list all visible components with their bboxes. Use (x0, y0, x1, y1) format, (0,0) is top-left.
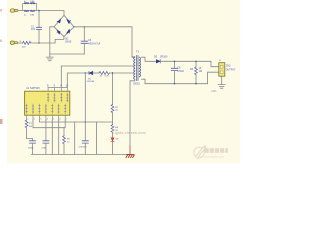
connector CN1 (AC line input) (11, 9, 18, 12)
left margin red mark A (0, 9, 2, 12)
pin names inside IC (top-right squiggles) (47, 93, 68, 102)
svg-text:SR160: SR160 (160, 55, 168, 58)
wire snubber branch from wire B (84, 73, 86, 122)
wire DC+ bus to transformer (74, 27, 132, 57)
bottom ground rail (32, 153, 131, 155)
wire plain branch x=96.6 (96, 122, 98, 154)
capacitor C4 (45, 120, 47, 140)
IC U1 (25, 91, 70, 115)
diode B1-c (57, 30, 60, 34)
wire CN1 to choke (18, 10, 23, 12)
svg-text:1N4148: 1N4148 (87, 81, 95, 83)
node C5 top junction (84, 26, 85, 27)
svg-text:400V/4.7uF: 400V/4.7uF (88, 43, 101, 46)
left margin red mark B (0, 40, 2, 43)
ground (power, red) (126, 155, 134, 158)
svg-text:www.dianlut.com: www.dianlut.com (204, 154, 225, 158)
transformer T1 (132, 56, 141, 81)
diode D6 (89, 71, 93, 74)
wire plain branch x=74.7 (74, 122, 76, 154)
watermark logo bottom right (194, 145, 228, 158)
left margin red mark C (0, 119, 3, 124)
diode D5 (156, 60, 160, 63)
svg-text:2N60: 2N60 (28, 148, 34, 150)
secondary winding (139, 57, 140, 77)
svg-text:EE16: EE16 (134, 82, 141, 86)
node wire B / snubber (85, 72, 86, 73)
IC bottom pins (27, 115, 66, 120)
svg-text:10M: 10M (30, 1, 34, 3)
wire B: IC drain line (67, 73, 89, 88)
connector CN3 (output) (219, 63, 225, 76)
resistor R10 on drain line (99, 72, 109, 75)
svg-text:OUTPUT: OUTPUT (226, 69, 236, 72)
node: junction C1 top (38, 10, 39, 11)
svg-text:CN3: CN3 (226, 65, 231, 68)
diode B1-b (67, 20, 71, 24)
svg-text:4.7K: 4.7K (105, 76, 110, 78)
wire A: IC aux to transformer (61, 65, 133, 67)
wire primary return down to ground (130, 79, 135, 146)
wire fuse to bridge (31, 42, 55, 45)
wire dog-leg N to bridge bottom vertex (55, 37, 64, 43)
resistor R1 under pin1 (25, 120, 28, 128)
wire bridge left vertex to primary ground rail (50, 27, 54, 54)
IC top pins and tie bus (48, 88, 67, 92)
svg-text:10D: 10D (22, 47, 26, 49)
wire secondary top to D5 (142, 57, 156, 61)
diode B1-a (57, 19, 61, 23)
node bridge right vertex (73, 26, 74, 27)
resistor R5 (63, 128, 65, 136)
wire OUT+ rail (160, 61, 218, 66)
core (136, 56, 138, 81)
svg-text:104: 104 (31, 28, 36, 31)
svg-text:470uF: 470uF (177, 70, 184, 73)
ground (output) (218, 76, 225, 88)
wire choke to bridge top vertex (37, 11, 65, 16)
wire CN2 to fuse (18, 42, 23, 44)
node: junction C1 bottom (38, 42, 39, 43)
diode D8 (red) (112, 132, 114, 137)
common-mode choke L1 (two windings) (23, 4, 37, 11)
pin names inside IC (bottom row squiggles) (26, 104, 66, 114)
primary winding (134, 57, 135, 79)
capacitor C5 (bulk 400V) (81, 27, 101, 54)
svg-text:473/50V: 473/50V (79, 147, 88, 149)
svg-text:2W10: 2W10 (65, 40, 72, 43)
svg-text:1M: 1M (29, 126, 32, 128)
capacitor C8 (output electrolytic) (171, 61, 184, 83)
fuse RF1 (23, 41, 31, 44)
capacitor C3 (32, 139, 34, 141)
resistor R6 (output bleeder) (190, 61, 203, 83)
ground (primary) (46, 54, 53, 61)
resistor R7 (112, 73, 114, 105)
svg-text:10M: 10M (30, 14, 34, 16)
wire R1 down and right (27, 128, 33, 139)
svg-text:GND: GND (211, 90, 217, 93)
capacitor C6 (84, 122, 86, 140)
svg-text:U1 SM7525: U1 SM7525 (26, 86, 40, 90)
svg-text:4700: 4700 (41, 148, 47, 150)
diode B1-d (67, 29, 70, 33)
bus wires below IC (33, 120, 65, 128)
resistor R8 (112, 122, 114, 125)
bridge rectifier B1 (54, 15, 74, 36)
wire secondary return (142, 79, 208, 84)
sheet background (0, 0, 240, 163)
primary ground rail (50, 53, 85, 55)
svg-text:Lights.ofweek.com: Lights.ofweek.com (113, 131, 146, 135)
connector CN2 (AC neutral input) (10, 41, 17, 44)
wire return rail to connector pin2 (208, 72, 219, 84)
capacitor C1 (X-cap across line) (31, 11, 42, 43)
